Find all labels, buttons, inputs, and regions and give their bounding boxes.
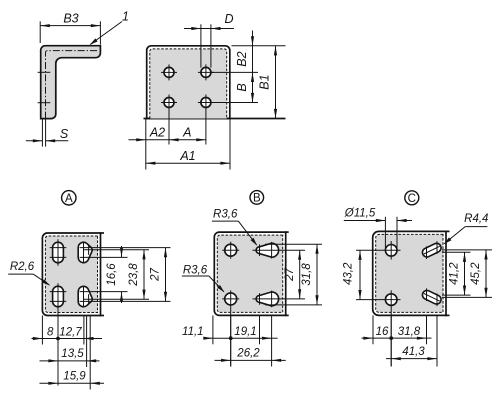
view A slot bottom-right crosshair verticals <box>83 286 85 308</box>
view B hole bottom-left <box>225 293 237 305</box>
L-bracket hole position tick upper <box>38 71 51 73</box>
dimension 31,8 line view B <box>316 244 318 305</box>
svg-text:B3: B3 <box>63 11 78 25</box>
view label circle B <box>250 191 264 205</box>
dimension 27 line <box>165 248 167 302</box>
L-bracket centerline (dash-dot) <box>46 51 98 119</box>
dimension B3 line with arrows <box>40 25 100 27</box>
svg-text:43,2: 43,2 <box>343 262 355 285</box>
view B bottom extension line slot small center <box>259 315 261 344</box>
svg-text:A: A <box>182 126 191 140</box>
front view extension row hole row 2 <box>211 102 258 104</box>
svg-text:16: 16 <box>376 326 389 338</box>
view A extension row slot outer center top (for 27) <box>80 247 171 249</box>
dimension D extension lines from hole edges <box>200 24 202 67</box>
view C bottom extension line hole center <box>390 315 392 366</box>
view A extension row slot inner center top (for 16,6) <box>80 256 128 258</box>
svg-text:15,9: 15,9 <box>63 371 86 383</box>
svg-text:R4,4: R4,4 <box>464 213 488 225</box>
front view hole bottom-right <box>201 98 211 108</box>
view C bottom row 2 (41,3) <box>386 358 437 360</box>
svg-text:27: 27 <box>150 268 162 282</box>
view label circle A <box>62 191 76 205</box>
view B hole top-left crosshair <box>222 249 239 251</box>
view C extension row 45,2 top <box>442 249 492 251</box>
view C bend overhang top <box>446 230 450 232</box>
dimension A1 extension line right <box>229 119 231 170</box>
view A slot top-left (obround) <box>53 242 64 263</box>
svg-text:12,7: 12,7 <box>59 326 82 338</box>
view B bottom row 1 (11,1 / 19,1) <box>205 337 213 339</box>
view B extension row slot top edge (for 31,8) <box>265 243 322 245</box>
front view hole top-right crosshair <box>198 71 214 73</box>
view C bottom extension line plate left edge <box>372 315 374 344</box>
L-bracket hole position tick lower <box>38 102 51 104</box>
view C extension row 45,2 bottom <box>442 296 492 298</box>
L-bracket side view outline <box>41 46 101 119</box>
dimension A1 row <box>146 162 230 164</box>
view B hole top-left <box>225 244 237 256</box>
dimension B3 extension line left <box>39 21 41 43</box>
svg-text:16,6: 16,6 <box>106 263 118 286</box>
dimension S line right segment with arrow <box>46 140 69 142</box>
dimension 41,2 line <box>464 252 466 295</box>
dimension 16,6 line with outside arrows <box>121 246 123 257</box>
front view hole bottom-right crosshair and extension <box>198 102 214 104</box>
view C hidden outline dashed <box>376 234 443 312</box>
view A hidden outline dashed <box>45 236 97 313</box>
dimension S extension line left <box>41 119 43 146</box>
front view plate outline <box>147 46 230 119</box>
view A extension row slot inner center bottom (for 16,6) <box>80 291 128 293</box>
view B extension row slot center top (for 27) <box>281 249 306 251</box>
view A slot bottom-right (rounded triangle) <box>78 286 92 306</box>
view label circle C <box>405 191 419 205</box>
svg-text:A: A <box>65 193 73 205</box>
front view hidden leg outline (dashed) <box>150 49 227 119</box>
view B bend overhang top <box>286 231 289 233</box>
svg-text:C: C <box>408 193 416 205</box>
svg-text:B: B <box>253 193 261 205</box>
svg-text:S: S <box>60 127 69 141</box>
view C slot bottom-right (angled obround) <box>422 290 441 304</box>
svg-text:41,3: 41,3 <box>402 346 425 358</box>
view B extension row slot center bottom (for 27) <box>281 298 306 300</box>
dimension 27 line view B <box>299 250 301 299</box>
view B slot top-right crosshairs <box>253 249 281 251</box>
view A slot bottom-left crosshairs with extension to bottom dims <box>50 291 67 293</box>
view A slot bottom-left (obround) <box>53 286 64 307</box>
svg-text:27: 27 <box>284 268 296 282</box>
view B hidden outline dashed <box>217 235 282 312</box>
view C hole top-left <box>385 245 397 257</box>
view C bottom row 1 (16 / 31,8) <box>362 337 374 339</box>
front view hole bottom-left crosshair and extension <box>161 102 177 104</box>
front view extension row top edge <box>232 45 286 47</box>
dimension 45,2 line <box>485 250 487 298</box>
view A bottom row 3 (15,9) <box>40 382 105 384</box>
view A extension row slot outer center bottom (for 27) <box>80 300 171 302</box>
view A bend edge right <box>100 232 102 316</box>
dimension 43,2 line view C <box>359 250 361 299</box>
view C bottom extension line slot right center <box>436 315 438 366</box>
view A bend overhang top <box>101 232 105 234</box>
view A bottom row 1 (8 / 12,7) <box>32 338 43 340</box>
view C bottom extension line slot left center <box>426 315 428 344</box>
svg-text:A1: A1 <box>179 149 195 163</box>
view B bottom row 2 (26,2) <box>215 359 286 361</box>
svg-text:45,2: 45,2 <box>470 262 482 285</box>
view B hole bottom-left crosshair with extension <box>222 298 239 300</box>
svg-text:R3,6: R3,6 <box>183 264 208 276</box>
svg-text:B1: B1 <box>258 74 272 89</box>
view A slot top-right crosshair verticals <box>83 242 85 264</box>
view A bend overhang bottom <box>101 315 105 317</box>
svg-text:23,8: 23,8 <box>128 263 140 287</box>
dimension S line left segment with arrow <box>26 140 43 142</box>
view C slot top-right (angled obround) <box>422 243 441 257</box>
view A bottom extension line slot right edge <box>89 316 91 390</box>
view C bend edge right <box>445 231 447 317</box>
view B bend edge right <box>285 231 287 316</box>
svg-text:19,1: 19,1 <box>234 326 256 338</box>
view C bend overhang bottom <box>446 314 450 316</box>
dimension diameter 11,5 lines <box>384 217 386 248</box>
front view hole bottom-left <box>164 98 174 108</box>
svg-text:A2: A2 <box>149 126 165 140</box>
svg-text:1: 1 <box>122 9 129 23</box>
view C hole bottom-left crosshair with extensions <box>356 299 401 301</box>
view B slot top-right (pear) <box>256 243 279 257</box>
view A extension row apex top (for 23,8) <box>83 249 149 251</box>
svg-text:R2,6: R2,6 <box>10 261 35 273</box>
view C plate outline <box>373 231 446 315</box>
view B slot bottom-right (pear) <box>256 292 279 306</box>
svg-text:41,2: 41,2 <box>449 262 461 285</box>
view A bottom extension line triangle centers <box>83 316 85 345</box>
view C hole top-left crosshair with left extension row <box>356 249 401 251</box>
dimension B3 extension line right <box>99 21 101 44</box>
view C slot top-right axis and ticks <box>424 246 440 254</box>
svg-text:B: B <box>235 83 249 91</box>
svg-text:11,1: 11,1 <box>182 326 204 338</box>
view A bottom extension line plate left edge <box>41 316 43 345</box>
view A extension row apex bottom (for 23,8) <box>83 298 149 300</box>
svg-text:R3,6: R3,6 <box>213 209 238 221</box>
dimension S extension line right <box>45 119 47 146</box>
svg-text:13,5: 13,5 <box>61 348 84 360</box>
view C slot bottom-right axis and ticks <box>424 293 440 301</box>
view A plate outline <box>42 233 100 316</box>
view B bottom extension line hole center <box>230 315 232 366</box>
svg-text:D: D <box>224 12 233 26</box>
front view bend line (bottom edge extended) <box>144 118 286 120</box>
view A slot top-right (rounded triangle) <box>78 242 92 262</box>
view A bottom row 2 (13,5) <box>40 360 100 362</box>
front view extension row hole row 1 <box>211 71 258 73</box>
svg-text:8: 8 <box>47 326 54 338</box>
front view hole top-right <box>201 67 211 77</box>
view B bottom extension line slot big center <box>271 315 273 366</box>
view C extension row 41,2 top <box>442 251 471 253</box>
dimension A2/A row <box>129 139 206 141</box>
leader line for label 1 <box>90 22 122 45</box>
view A slot top-left crosshairs <box>50 247 67 249</box>
view B plate outline <box>214 232 285 315</box>
front view hole top-left crosshair <box>161 71 177 73</box>
front view hole top-left <box>164 67 174 77</box>
dimension A2/A extension line plate left <box>145 119 147 170</box>
view B bottom extension line plate left edge <box>212 315 214 344</box>
svg-text:31,8: 31,8 <box>398 326 421 338</box>
dimension D line with outside arrows <box>184 28 234 30</box>
view B bend overhang bottom <box>286 314 289 316</box>
dimension B2/B line <box>252 31 254 104</box>
dimension B1 line <box>275 46 277 119</box>
svg-text:Ø11,5: Ø11,5 <box>344 207 376 219</box>
svg-text:B2: B2 <box>235 51 249 66</box>
dimension 23,8 line <box>143 250 145 299</box>
view C hole bottom-left <box>385 294 397 306</box>
view A bottom extension line apex center <box>86 316 88 368</box>
view B extension row slot bottom edge (for 31,8) <box>265 304 322 306</box>
view B slot bottom-right crosshairs with extensions <box>253 298 281 300</box>
view C extension row 41,2 bottom <box>442 294 471 296</box>
svg-text:26,2: 26,2 <box>236 348 260 360</box>
svg-text:31,8: 31,8 <box>301 263 313 286</box>
